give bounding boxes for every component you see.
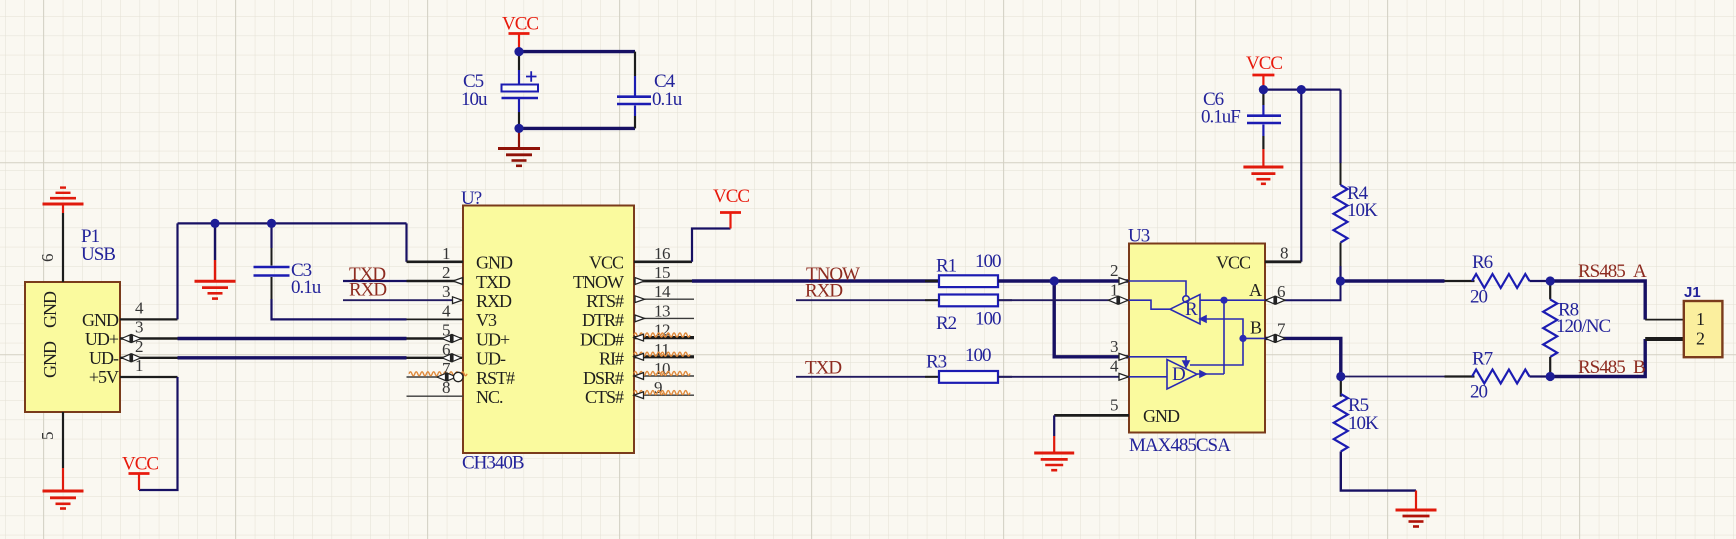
svg-text:GND: GND <box>82 310 119 330</box>
capacitor C5 polarized top plate <box>502 85 539 92</box>
svg-text:6: 6 <box>442 340 450 359</box>
arrow into driver top <box>1183 361 1189 367</box>
svg-text:VCC: VCC <box>502 14 538 35</box>
svg-text:R3: R3 <box>926 352 947 373</box>
svg-text:RXD: RXD <box>476 291 512 311</box>
resistor R1 body <box>939 275 998 287</box>
U1 pin 1 wire from gnd rail <box>405 223 407 261</box>
junction dot RS485B <box>1546 372 1555 381</box>
U1 pin 7 active-low bubble <box>454 372 463 381</box>
svg-text:DTR#: DTR# <box>582 310 624 330</box>
svg-text:UD-: UD- <box>476 349 506 369</box>
svg-text:7: 7 <box>442 359 451 378</box>
svg-text:VCC: VCC <box>713 186 749 207</box>
svg-text:VCC: VCC <box>589 253 624 273</box>
U3 pin 7 wire to B junction <box>1265 338 1341 376</box>
C5 plus sign <box>526 71 537 82</box>
U1 pin 15 stub TNOW <box>634 280 692 283</box>
junction dot internal B <box>1239 335 1246 342</box>
U1 pin 9 stub <box>634 394 694 396</box>
capacitor C4 bottom lead <box>634 106 636 117</box>
junction on rail at C3 <box>267 219 276 228</box>
wire C5 to C4 bottom <box>519 127 635 130</box>
svg-text:A: A <box>1249 280 1262 300</box>
U1 pin 7 bidirectional arrow <box>437 372 457 381</box>
U1 pin 7 stub RST# <box>407 376 464 378</box>
svg-text:1: 1 <box>442 244 450 263</box>
net RXD wire to R2 <box>796 299 939 301</box>
junction dot A net <box>1336 276 1345 285</box>
svg-text:0.1u: 0.1u <box>291 277 322 298</box>
resistor R7 zigzag <box>1472 370 1530 384</box>
capacitor C3 top lead <box>270 223 272 248</box>
svg-text:4: 4 <box>1110 357 1119 376</box>
ground below P1 <box>43 468 84 509</box>
svg-text:RXD: RXD <box>349 280 386 301</box>
junction on rail at ground drop <box>210 219 219 228</box>
wire R2 to MAX485 pin1 <box>998 299 1129 301</box>
svg-text:DSR#: DSR# <box>583 368 624 388</box>
svg-text:20: 20 <box>1470 381 1488 402</box>
capacitor C5 bottom plate <box>502 97 539 100</box>
power port VCC above C6 <box>1252 75 1274 90</box>
svg-text:4: 4 <box>135 298 144 317</box>
junction dot B net <box>1336 372 1345 381</box>
wire pin5 down to ground <box>1053 415 1055 436</box>
svg-text:NC.: NC. <box>476 387 503 407</box>
B tap to pin7 <box>1243 337 1265 339</box>
R1 leads <box>925 280 1012 283</box>
DE path pin3 <box>1129 357 1186 364</box>
U3 pin 4 input arrow <box>1119 373 1129 380</box>
internal vertical A to driver out <box>1223 300 1225 374</box>
capacitor C3 plates <box>254 267 290 276</box>
connector P1 USB body <box>25 282 120 412</box>
svg-text:MAX485CSA: MAX485CSA <box>1129 435 1231 456</box>
resistor R2 body <box>939 295 998 307</box>
svg-text:1: 1 <box>1696 309 1704 329</box>
capacitor C4 top lead <box>634 52 636 76</box>
U1 pin 2 output arrow <box>453 278 463 285</box>
resistor R6 left lead <box>1445 280 1475 282</box>
R5 top lead <box>1340 377 1342 397</box>
U1 pin 4 stub V3 <box>407 318 464 320</box>
junction dot VCC/C6 <box>1259 85 1268 94</box>
wire RS485 B to J1 pin2 <box>1550 339 1645 377</box>
junction dot internal A <box>1220 297 1227 304</box>
receiver triangle R <box>1170 295 1200 325</box>
svg-text:3: 3 <box>442 282 450 301</box>
svg-text:10K: 10K <box>1347 200 1378 221</box>
RE path pin2 <box>1129 281 1186 296</box>
U3 pin 2 input arrow <box>1119 278 1129 285</box>
svg-text:VCC: VCC <box>1246 53 1282 74</box>
wire B junction to R7 <box>1341 376 1445 378</box>
power port VCC near U1 <box>720 213 741 229</box>
svg-text:GND: GND <box>476 253 513 273</box>
ground below C5 (dark) <box>498 129 540 166</box>
svg-text:5: 5 <box>1110 396 1118 415</box>
ground below rail <box>195 260 236 299</box>
wire VCC rail to R4 <box>1263 88 1340 90</box>
svg-text:U?: U? <box>461 188 482 209</box>
svg-text:3: 3 <box>1110 337 1118 356</box>
svg-text:RS485: RS485 <box>1578 261 1625 282</box>
net RXD wire to U1 pin3 <box>343 299 463 301</box>
wire R4 bottom to A junction <box>1340 243 1342 267</box>
svg-text:VCC: VCC <box>1216 253 1251 273</box>
junction dot C5 top <box>514 47 523 56</box>
U1 pin 8 stub NC <box>407 395 464 397</box>
svg-text:R6: R6 <box>1472 252 1493 273</box>
wire gnd rail horizontal <box>178 222 407 224</box>
svg-text:R: R <box>1185 299 1198 320</box>
capacitor C4 plates <box>617 97 651 104</box>
ground bottom right <box>1396 491 1437 527</box>
svg-text:RS485: RS485 <box>1578 357 1625 378</box>
ground below U3 pin5 <box>1034 436 1074 470</box>
svg-text:10K: 10K <box>1348 413 1379 434</box>
svg-text:RXD: RXD <box>805 281 842 302</box>
svg-text:B: B <box>1250 318 1262 338</box>
U1 pin 6 bidirectional arrow <box>442 353 462 362</box>
resistor R7 left lead <box>1445 375 1475 377</box>
P1 pin 5 shield wire <box>62 412 64 468</box>
U1 pin 3 input arrow <box>453 297 463 304</box>
svg-text:2: 2 <box>1110 261 1118 280</box>
receiver input line from B <box>1190 319 1243 365</box>
resistor R8 top lead <box>1549 281 1551 299</box>
capacitor C5 bottom lead <box>518 99 520 112</box>
wire RS485 A to J1 pin1 <box>1550 281 1645 320</box>
svg-text:100: 100 <box>975 308 1001 329</box>
R2 leads <box>925 299 1012 301</box>
U3 pin 8 stub VCC <box>1265 260 1301 263</box>
U1 pin 5 bidirectional arrow <box>442 334 462 343</box>
U1 pin 7 no-connect squiggle <box>409 372 438 376</box>
svg-text:VCC: VCC <box>122 454 158 475</box>
wire TNOW branch down to MAX485 pin3 <box>1054 281 1129 357</box>
svg-text:U3: U3 <box>1128 226 1150 247</box>
U1 pin 15 output arrow <box>635 278 645 285</box>
wire R6 to RS485A junction <box>1530 280 1551 282</box>
svg-text:UD-: UD- <box>89 348 119 368</box>
svg-text:GND: GND <box>40 291 60 328</box>
wire R3 to MAX485 pin4 <box>998 376 1129 378</box>
resistor R4 zigzag <box>1334 185 1348 243</box>
driver triangle D <box>1167 360 1197 390</box>
wire A junction to R6 <box>1341 279 1445 282</box>
IC U? CH340B body <box>463 206 634 454</box>
net TNOW wire pin15 to R1 <box>692 279 939 282</box>
power port VCC above C5 <box>509 34 530 52</box>
svg-text:TXD: TXD <box>476 272 511 292</box>
wire R5 bottom to ground elbow <box>1341 452 1416 491</box>
svg-text:RST#: RST# <box>476 368 515 388</box>
svg-text:8: 8 <box>1280 244 1288 263</box>
svg-text:4: 4 <box>442 301 451 320</box>
svg-text:R7: R7 <box>1472 349 1493 370</box>
svg-text:+5V: +5V <box>89 367 119 387</box>
arrow into receiver <box>1200 316 1206 322</box>
resistor R6 zigzag <box>1472 274 1530 288</box>
svg-text:16: 16 <box>654 244 670 263</box>
A line from receiver to pin6 <box>1200 299 1265 301</box>
RO path pin1 <box>1129 300 1170 309</box>
U1 pin 16 stub VCC <box>634 260 692 263</box>
svg-text:20: 20 <box>1470 287 1488 308</box>
U3 pin 3 input arrow <box>1119 353 1129 360</box>
svg-text:14: 14 <box>654 282 671 301</box>
junction dot RS485A <box>1546 276 1555 285</box>
svg-text:V3: V3 <box>476 310 497 330</box>
IC U3 MAX485CSA body <box>1129 244 1265 433</box>
svg-text:DCD#: DCD# <box>580 329 624 349</box>
junction dot pin8 drop <box>1297 85 1306 94</box>
P1 UD+ bidirectional arrow <box>122 334 142 343</box>
DI path pin4 <box>1129 376 1167 378</box>
wire ground drop <box>214 223 216 260</box>
arrow at driver output <box>1200 371 1206 377</box>
connector J1 body <box>1684 301 1723 357</box>
wire pin16 elbow to VCC <box>692 229 731 262</box>
svg-text:B: B <box>1633 357 1645 378</box>
capacitor C6 top lead <box>1262 90 1264 105</box>
P1 pin 4 stub <box>120 318 178 320</box>
wire P1 pin4 up to gnd rail <box>176 223 178 319</box>
svg-text:100: 100 <box>965 345 991 366</box>
C3 bottom lead to V3 wire <box>271 277 273 300</box>
svg-text:J1: J1 <box>1684 284 1701 301</box>
U1 pin 10 stub <box>634 375 694 377</box>
P1 UD- bidirectional arrow <box>122 353 142 362</box>
svg-text:0.1u: 0.1u <box>652 89 683 110</box>
wire R1 to junction and MAX485 pin2 <box>998 279 1129 282</box>
svg-text:8: 8 <box>442 378 450 397</box>
power port VCC near P1 <box>129 474 150 491</box>
svg-text:D: D <box>1172 364 1185 385</box>
P1 pin1 +5V stub <box>120 376 178 378</box>
wire R7 to RS485B junction <box>1530 375 1551 377</box>
U1 pin 1 stub <box>407 260 464 263</box>
junction dot C5 bottom <box>514 124 523 133</box>
U3 pin 6 bidirectional arrow <box>1266 296 1286 305</box>
svg-text:RI#: RI# <box>599 349 624 369</box>
svg-text:CTS#: CTS# <box>585 387 624 407</box>
svg-text:0.1uF: 0.1uF <box>1201 107 1240 128</box>
svg-text:R2: R2 <box>936 313 957 334</box>
wire C5 to C4 top <box>519 50 635 53</box>
svg-text:5: 5 <box>38 432 57 440</box>
svg-text:R1: R1 <box>936 256 957 277</box>
U1 pin 14 stub <box>634 298 694 300</box>
ground below C6 <box>1243 149 1283 184</box>
svg-text:UD+: UD+ <box>476 329 510 349</box>
svg-text:GND: GND <box>40 341 60 378</box>
svg-text:120/NC: 120/NC <box>1556 316 1611 337</box>
wire UD+ P1 to U1 <box>120 337 463 339</box>
wire +5V elbow to VCC <box>139 377 178 490</box>
svg-text:UD+: UD+ <box>85 329 119 349</box>
svg-text:CH340B: CH340B <box>462 453 524 474</box>
net TXD wire to U1 pin2 <box>343 280 407 282</box>
svg-text:13: 13 <box>654 301 670 320</box>
driver output to A vertical <box>1197 373 1224 375</box>
svg-text:TNOW: TNOW <box>573 272 624 292</box>
svg-text:6: 6 <box>38 254 57 262</box>
resistor R3 body <box>939 371 998 383</box>
svg-text:2: 2 <box>1696 329 1704 349</box>
capacitor C6 plates <box>1247 116 1281 123</box>
U3 pin 7 bidirectional arrow <box>1266 334 1286 343</box>
U1 pin 13 stub <box>634 317 694 319</box>
svg-text:2: 2 <box>442 263 450 282</box>
U3 internal receiver wiring <box>1129 281 1265 389</box>
ground (inverted) above P1 <box>43 188 84 213</box>
capacitor C5 top lead <box>518 52 520 70</box>
svg-text:5: 5 <box>442 321 450 340</box>
wire down to U3 pin8 <box>1300 90 1302 262</box>
receiver enable bubble <box>1183 296 1189 302</box>
U1 pin 12 stub <box>634 336 694 339</box>
svg-text:RTS#: RTS# <box>586 291 624 311</box>
resistor R5 zigzag <box>1334 394 1348 452</box>
svg-text:USB: USB <box>81 244 115 265</box>
U3 pin 5 stub GND <box>1054 414 1129 417</box>
resistor R8 zigzag <box>1543 299 1557 357</box>
svg-text:100: 100 <box>975 251 1001 272</box>
U3 pin 1 bidirectional arrow <box>1109 296 1129 305</box>
R3 leads <box>925 376 1012 378</box>
P1 pin 6 shield wire <box>62 213 64 282</box>
capacitor C6 bottom lead <box>1262 125 1264 137</box>
svg-text:GND: GND <box>1143 406 1180 426</box>
wire UD- P1 to U1 <box>120 357 463 359</box>
wire U3 pin6 to A junction <box>1265 281 1341 300</box>
resistor R8 bottom lead <box>1549 357 1551 377</box>
svg-text:A: A <box>1633 261 1647 282</box>
svg-text:10u: 10u <box>461 89 488 110</box>
svg-text:15: 15 <box>654 263 670 282</box>
junction dot TNOW branch <box>1050 276 1059 285</box>
net TXD wire to R3 <box>796 376 939 378</box>
wire VCC rail down to R4 <box>1339 90 1341 163</box>
U1 pin 11 stub <box>634 355 694 358</box>
svg-text:TXD: TXD <box>805 358 841 379</box>
